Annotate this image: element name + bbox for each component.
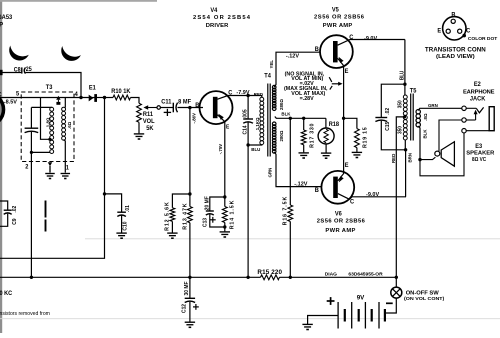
junction R16 top	[289, 117, 292, 120]
wire contact2 to speaker	[439, 120, 462, 151]
resistor R14	[222, 207, 227, 223]
V4 collector	[218, 96, 249, 100]
capacitor C11	[172, 103, 174, 113]
V5 emitter	[338, 58, 344, 118]
svg-text:R10 1K: R10 1K	[111, 89, 131, 95]
svg-text:ON-OFF SW: ON-OFF SW	[406, 290, 440, 296]
ground R14	[220, 231, 230, 233]
svg-text:.01: .01	[125, 205, 131, 212]
wire R18 top	[325, 118, 327, 128]
junction T3 bottom	[30, 151, 33, 154]
svg-text:.02: .02	[385, 108, 391, 115]
wire base drop	[189, 108, 191, 207]
svg-text:(ON VOL CONT): (ON VOL CONT)	[404, 296, 445, 302]
wire R16 bottom	[289, 222, 291, 278]
wire emitters to R19	[344, 118, 357, 128]
thermistor R18	[318, 128, 334, 144]
junction R13/rail	[188, 276, 191, 279]
svg-text:R18: R18	[329, 122, 340, 128]
junction C14 bottom	[246, 143, 249, 146]
svg-text:1.1KΩ: 1.1KΩ	[255, 117, 260, 130]
wire R18 bottom	[325, 144, 327, 153]
conn lead B	[451, 19, 455, 23]
wire bottom rail right	[280, 276, 397, 278]
wire C14 top	[247, 96, 249, 120]
wire coil2 to pin1	[64, 140, 66, 173]
transistor conn circle	[443, 17, 466, 40]
plus battery	[327, 300, 335, 302]
wire BRN drop	[405, 150, 407, 197]
svg-text:JACK: JACK	[470, 96, 486, 102]
junction BLU/rail	[246, 276, 249, 279]
svg-text:C12: C12	[181, 304, 187, 313]
wire switch to battery	[385, 298, 396, 313]
svg-text:PWR AMP: PWR AMP	[325, 228, 355, 234]
wire BLU drop	[247, 145, 249, 277]
pot wiper arrow	[147, 107, 157, 109]
junction C14 top	[246, 94, 249, 97]
wire GRN to jack	[418, 108, 462, 110]
junction R17 top	[302, 117, 305, 120]
ground battery	[302, 323, 312, 325]
switch circle	[391, 287, 402, 298]
transistor V6	[321, 171, 354, 204]
jack spring contact	[466, 107, 476, 109]
ground R19	[352, 151, 362, 153]
capacitor C14	[243, 118, 253, 120]
capacitor C13 loop	[210, 197, 225, 211]
svg-text:.005: .005	[242, 109, 248, 119]
T5 core	[410, 94, 412, 141]
wire bottom rail left	[0, 276, 261, 278]
svg-text:0 KC: 0 KC	[0, 291, 13, 297]
transistor V5	[320, 35, 353, 68]
V6 emitter	[338, 118, 344, 181]
jack contact 2	[462, 118, 466, 122]
wire R12 branch	[172, 194, 190, 208]
T4 primary coil 1.1K	[260, 97, 264, 101]
wire C11 to base	[178, 107, 204, 109]
wire C10 branch	[105, 194, 122, 212]
svg-text:V5: V5	[332, 7, 340, 13]
wire stub at left edge (to C8)	[0, 70, 3, 75]
svg-text:63D645955-OR: 63D645955-OR	[348, 272, 383, 278]
jack movable contact	[466, 119, 475, 121]
svg-text:.8 MF: .8 MF	[177, 99, 192, 105]
resistor R15	[261, 275, 280, 280]
minus battery	[386, 302, 393, 304]
svg-text:8Ω VC: 8Ω VC	[472, 157, 487, 163]
capacitor C9	[4, 209, 12, 211]
svg-text:T4: T4	[264, 73, 271, 79]
wire C10 to gnd	[121, 215, 123, 232]
wire GRN to V6 base	[274, 152, 321, 187]
plus C11	[164, 111, 171, 113]
svg-text:B: B	[451, 12, 456, 18]
svg-text:DRIVER: DRIVER	[206, 23, 229, 29]
T3 primary coil 1.8ohm	[50, 107, 54, 111]
svg-text:R13 47K: R13 47K	[182, 202, 188, 229]
svg-text:nsistors removed from: nsistors removed from	[0, 311, 50, 317]
svg-text:E: E	[226, 124, 230, 130]
wire C15 bottom	[381, 121, 406, 150]
svg-text:B: B	[315, 47, 320, 53]
dashed shield mark	[45, 201, 47, 218]
svg-text:.02: .02	[12, 206, 18, 213]
capacitor C15	[375, 117, 387, 119]
diode E1	[89, 95, 94, 102]
svg-text:9V: 9V	[357, 295, 365, 302]
svg-text:.8Ω: .8Ω	[423, 113, 428, 120]
svg-text:280Ω: 280Ω	[279, 99, 284, 110]
svg-text:C9: C9	[12, 218, 18, 224]
wire R19 gnd	[356, 148, 358, 152]
svg-text:C: C	[350, 199, 355, 205]
capacitor T3 internal	[25, 127, 39, 129]
svg-text:20 MF: 20 MF	[204, 196, 210, 210]
wire T3 cap branch	[30, 107, 32, 128]
wire pin2 drop	[30, 152, 32, 277]
svg-text:5K: 5K	[146, 126, 154, 132]
junction pin2/rail	[30, 276, 33, 279]
svg-text:-.12V: -.12V	[294, 182, 307, 188]
capacitor C12	[185, 297, 195, 299]
wire switch top	[395, 277, 397, 287]
partial transistor V3 (cut at edge)	[0, 94, 4, 126]
resistor R11 (volume)	[137, 103, 142, 122]
wire wiper to C11	[161, 107, 174, 109]
wire R10 to pot	[131, 98, 140, 104]
svg-text:EARPHONE: EARPHONE	[463, 89, 495, 95]
wire jack sleeve loop	[420, 133, 464, 176]
wire AGC drop	[0, 98, 105, 259]
svg-text:TRANSISTOR CONN: TRANSISTOR CONN	[425, 47, 486, 54]
conn lead C	[458, 29, 462, 33]
svg-text:E: E	[437, 28, 441, 34]
speaker voice coil	[435, 151, 440, 156]
wire coil1 bottom	[31, 151, 50, 153]
ground C10	[116, 232, 126, 234]
resistor R13	[188, 207, 193, 223]
wire T5 tap RED	[396, 117, 404, 277]
resistor R12	[170, 208, 175, 222]
junction R12 branch	[188, 192, 191, 195]
ground pin1	[61, 173, 71, 175]
svg-text:BLK: BLK	[281, 111, 291, 116]
wire speaker return	[420, 157, 435, 159]
ground R11	[134, 133, 144, 135]
svg-text:P: P	[0, 21, 3, 28]
wire T3 inner top	[31, 106, 51, 108]
svg-text:-9.0V: -9.0V	[366, 192, 379, 198]
wire V5 collector drop	[404, 40, 406, 96]
svg-text:E1: E1	[89, 85, 97, 91]
jack body	[489, 107, 494, 131]
junction R16/rail	[289, 276, 292, 279]
svg-text:350: 350	[397, 126, 403, 134]
svg-text:R17 330: R17 330	[309, 123, 315, 148]
junction C15 top	[403, 83, 406, 86]
wire R11 bottom	[138, 122, 140, 133]
wire T3 cap to tap	[30, 132, 32, 153]
wire coil2 top	[64, 98, 66, 108]
wire T3 inner drop	[41, 98, 50, 140]
svg-text:2S56 OR 2SB56: 2S56 OR 2SB56	[314, 14, 365, 20]
svg-text:E: E	[345, 69, 349, 75]
svg-text:GRN: GRN	[428, 103, 438, 108]
ground R12	[167, 232, 177, 234]
junction speaker	[418, 158, 421, 161]
ground R17	[299, 152, 309, 154]
svg-text:VOL: VOL	[143, 119, 155, 125]
pot wiper terminal	[157, 106, 161, 110]
svg-text:GA53: GA53	[0, 14, 13, 21]
junction R14 bottom	[223, 225, 226, 228]
svg-text:BLK: BLK	[422, 129, 427, 139]
svg-text:=.28V: =.28V	[300, 96, 315, 102]
wire R17 top	[303, 118, 305, 130]
capacitor C8	[21, 67, 23, 73]
wire R17 gnd	[303, 145, 305, 153]
plus C13	[210, 219, 216, 221]
svg-text:C13: C13	[202, 218, 208, 227]
wire R12 to gnd	[171, 221, 173, 232]
T5 primary coil 350/350	[403, 95, 407, 99]
svg-text:DIAG: DIAG	[325, 272, 337, 278]
svg-text:R19 15: R19 15	[362, 127, 368, 148]
svg-text:E3: E3	[475, 144, 483, 150]
resistor R16	[288, 205, 293, 222]
svg-text:GRN: GRN	[267, 167, 272, 177]
capacitor C10	[117, 211, 126, 213]
svg-text:BLU: BLU	[251, 147, 261, 152]
svg-text:2S54 OR 2SB54: 2S54 OR 2SB54	[193, 15, 251, 21]
wire battery positive	[308, 316, 339, 325]
wire T4 primary bottom	[248, 144, 262, 147]
wire BLK to speaker	[418, 126, 420, 160]
wire C14 bottom	[247, 122, 249, 145]
svg-text:B: B	[315, 188, 320, 194]
junction T5 bottom	[404, 148, 407, 151]
note pointer arrow	[329, 77, 332, 82]
wire C15 top branch	[381, 84, 405, 117]
svg-text:-.75V: -.75V	[218, 143, 223, 154]
color dot	[462, 34, 466, 38]
svg-text:-8.5V: -8.5V	[4, 100, 17, 106]
jack contact 1	[462, 106, 466, 110]
svg-text:E: E	[345, 163, 349, 169]
wire R14 bottom	[224, 223, 226, 228]
svg-text:-.12V: -.12V	[286, 54, 299, 60]
jack contact 3	[462, 129, 466, 133]
tuning slug arrow	[56, 96, 60, 100]
svg-text:-.86V: -.86V	[191, 112, 196, 123]
svg-text:BLU: BLU	[399, 70, 405, 80]
junction emitters	[342, 117, 345, 120]
svg-text:280Ω: 280Ω	[279, 130, 284, 141]
wire C12 top	[189, 277, 191, 298]
resistor R19	[355, 129, 360, 148]
svg-text:30 MF: 30 MF	[184, 282, 190, 296]
svg-text:R12 5.6K: R12 5.6K	[164, 201, 170, 231]
junction coil tap	[48, 138, 51, 141]
wire E1 to R10	[97, 97, 113, 99]
svg-text:R15 220: R15 220	[257, 269, 282, 276]
T4 core	[267, 84, 269, 157]
V5 collector	[338, 40, 405, 46]
svg-text:R11: R11	[143, 112, 154, 118]
svg-text:C10: C10	[122, 221, 128, 230]
svg-text:(LEAD VIEW): (LEAD VIEW)	[436, 54, 475, 60]
ground T3 core	[48, 162, 52, 166]
ground R18	[321, 152, 331, 154]
svg-text:C: C	[228, 90, 233, 96]
plus C12	[193, 306, 199, 308]
svg-text:C: C	[466, 28, 471, 34]
svg-text:YEL: YEL	[269, 60, 274, 69]
svg-text:C8: C8	[14, 67, 21, 73]
wire T5 primary bottom	[404, 140, 406, 150]
svg-text:350: 350	[397, 100, 403, 108]
svg-text:T3: T3	[46, 85, 53, 91]
wire R13 to rail	[189, 223, 191, 278]
svg-text:SPEAKER: SPEAKER	[466, 151, 495, 157]
conn lead E	[446, 29, 450, 33]
svg-text:C: C	[349, 35, 354, 41]
svg-text:.6Ω: .6Ω	[67, 122, 72, 129]
transformer T3 box	[21, 92, 74, 162]
svg-text:R14 1.5K: R14 1.5K	[229, 200, 235, 230]
wire R16	[289, 118, 291, 205]
T4 secondary bottom 280ohm	[272, 122, 276, 126]
ground C12	[185, 321, 195, 323]
junction T5 tap	[403, 115, 406, 118]
svg-text:C15: C15	[385, 122, 391, 131]
wire C8 to main	[26, 73, 82, 98]
transistor V4	[200, 91, 233, 124]
wire C9 bottom stub	[0, 214, 8, 227]
junction base divider	[188, 106, 191, 109]
svg-text:2S56 OR 2SB56: 2S56 OR 2SB56	[317, 219, 366, 225]
junction R10/long drop	[103, 96, 106, 99]
wire T4 tap BLK	[275, 117, 326, 119]
svg-text:C14: C14	[242, 125, 248, 134]
wire main top	[0, 97, 89, 99]
wire C8 left	[0, 72, 21, 74]
svg-text:-9.0V: -9.0V	[364, 36, 377, 42]
resistor R10	[113, 95, 131, 100]
junction rail/switch	[395, 276, 398, 279]
T5 secondary coil .8ohm	[416, 110, 420, 114]
junction C8/main wire	[79, 96, 82, 99]
svg-text:V4: V4	[210, 8, 218, 14]
wire YEL to V5 base	[274, 52, 320, 87]
svg-text:C11: C11	[161, 99, 172, 105]
junction R14 top	[223, 195, 226, 198]
wire R14 top	[224, 197, 226, 207]
battery 9V	[337, 302, 339, 329]
svg-text:PWR AMP: PWR AMP	[323, 23, 353, 29]
V4 emitter	[218, 115, 225, 197]
svg-text:V6: V6	[335, 211, 343, 217]
wire R14 gnd	[224, 227, 226, 231]
svg-text:BRN: BRN	[407, 152, 412, 162]
svg-text:RED: RED	[391, 153, 396, 163]
speaker cone	[441, 142, 454, 167]
wire C12 bottom	[189, 302, 191, 322]
resistor R17	[301, 130, 306, 145]
svg-text:R16 7.5K: R16 7.5K	[282, 196, 288, 226]
wire T4 primary top	[248, 96, 262, 98]
wire C9 top stub	[0, 201, 8, 210]
svg-text:COLOR DOT: COLOR DOT	[468, 36, 497, 42]
T3 secondary coil .6ohm	[62, 107, 66, 111]
T4 secondary top 280ohm	[272, 85, 276, 89]
svg-text:1.8Ω: 1.8Ω	[45, 117, 50, 127]
V6 collector	[338, 194, 350, 200]
wire contact3 to body	[466, 130, 489, 132]
svg-text:E2: E2	[474, 82, 482, 88]
junction C10	[103, 192, 106, 195]
